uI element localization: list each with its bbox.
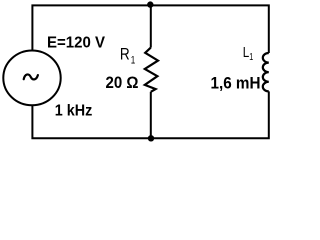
ac source V1 circle [3, 51, 60, 106]
wire resistor branch bottom lead [150, 92, 152, 139]
wire resistor branch top lead [150, 5, 152, 47]
inductor L1 coil [263, 53, 269, 91]
resistor R1 [145, 48, 158, 92]
svg-text:E=120 V: E=120 V [47, 35, 105, 52]
wire top border [32, 5, 268, 53]
node junction dot bottom [148, 135, 154, 141]
svg-text:L: L [243, 44, 250, 61]
svg-text:1: 1 [249, 51, 253, 63]
svg-text:1,6 mH: 1,6 mH [211, 75, 261, 93]
svg-text:R: R [120, 45, 130, 63]
wire bottom border [32, 91, 268, 138]
node junction dot top [147, 1, 153, 7]
svg-text:20 Ω: 20 Ω [106, 74, 139, 92]
svg-text:1 kHz: 1 kHz [55, 103, 93, 120]
svg-text:1: 1 [131, 54, 136, 66]
ac source sine symbol [24, 74, 38, 79]
